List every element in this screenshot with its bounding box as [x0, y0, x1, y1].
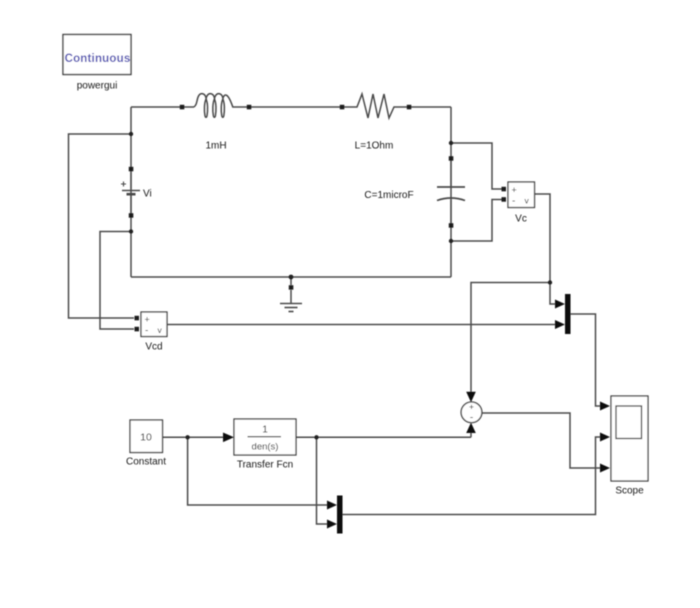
- svg-text:Vc: Vc: [515, 214, 527, 225]
- svg-text:den(s): den(s): [252, 442, 279, 453]
- svg-text:1mH: 1mH: [205, 141, 226, 152]
- svg-text:Scope: Scope: [615, 486, 644, 497]
- svg-text:-: -: [145, 326, 148, 337]
- svg-text:Vi: Vi: [143, 189, 152, 200]
- svg-text:Vcd: Vcd: [145, 342, 162, 353]
- svg-text:+: +: [145, 315, 150, 325]
- svg-text:L=1Ohm: L=1Ohm: [355, 141, 394, 152]
- svg-text:Constant: Constant: [126, 457, 166, 468]
- svg-text:-: -: [470, 413, 473, 424]
- svg-text:1: 1: [262, 425, 268, 436]
- svg-text:-: -: [512, 196, 515, 207]
- svg-text:Continuous: Continuous: [65, 53, 131, 65]
- svg-text:+: +: [512, 185, 517, 195]
- svg-text:10: 10: [140, 432, 152, 444]
- svg-text:C=1microF: C=1microF: [364, 190, 413, 201]
- svg-text:+: +: [469, 402, 474, 412]
- svg-text:powergui: powergui: [77, 81, 118, 92]
- svg-text:Transfer Fcn: Transfer Fcn: [237, 460, 293, 471]
